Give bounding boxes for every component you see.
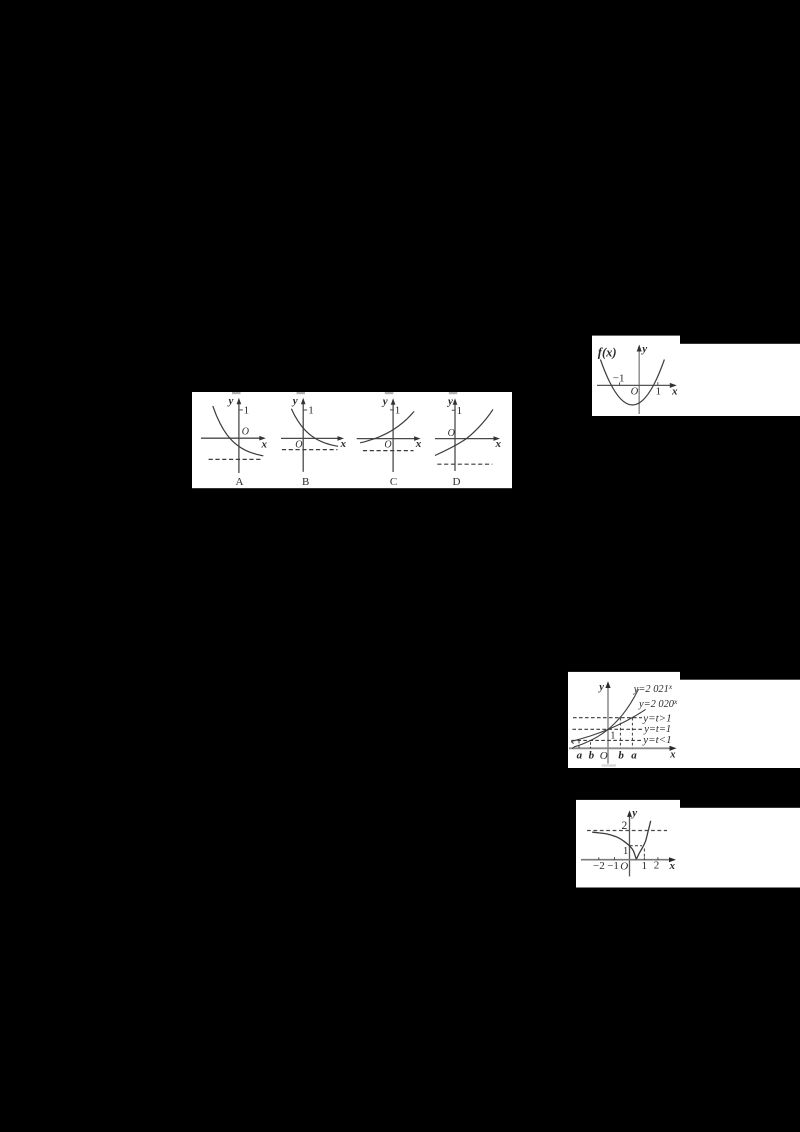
figure 4 white panel (V-shaped absolute-value curve) (576, 800, 680, 888)
fig4 tick 1 (643, 857, 645, 860)
svg-text:x: x (669, 860, 676, 872)
figure 4 white text band to page edge (679, 808, 800, 888)
panel C x-axis (357, 438, 416, 440)
svg-text:x: x (415, 438, 422, 450)
panel A y-axis (238, 403, 240, 474)
svg-text:y: y (630, 807, 637, 819)
figure 1 white text band to page edge (679, 344, 800, 416)
panel B x-axis arrowhead (338, 436, 345, 441)
panel C y-axis arrowhead (391, 398, 396, 405)
panel D y-axis arrowhead (453, 398, 458, 405)
svg-text:−1: −1 (613, 373, 625, 385)
fig3 small barb at 2021 curve left end (572, 747, 574, 749)
panel A decay curve (213, 406, 263, 456)
figure 3 white panel (exponential comparison) (568, 672, 680, 768)
figure 1 white panel (parabola figure) (592, 336, 680, 416)
svg-text:O: O (620, 860, 628, 872)
fig3 x-axis arrowhead (670, 746, 677, 751)
svg-text:1: 1 (308, 405, 314, 417)
panel D top smudge (449, 392, 458, 394)
panel D rising curve (435, 409, 493, 455)
panel B decay curve (291, 409, 338, 447)
panel A top smudge (232, 392, 241, 394)
fig4 left branch curve (592, 832, 636, 859)
fig4 y-axis arrowhead (627, 810, 632, 817)
fig1 tick 1 (657, 382, 659, 385)
svg-text:y: y (227, 395, 234, 407)
panel C rising curve (360, 411, 414, 442)
panel D y-axis (454, 403, 456, 471)
panel C top smudge (385, 392, 394, 394)
panel D dashed asymptote (437, 463, 492, 465)
svg-text:1: 1 (244, 404, 250, 416)
panel B top smudge (297, 392, 306, 394)
fig3 curve y=2021^x (574, 689, 638, 747)
fig3 dashed line y=t<1 (571, 739, 643, 741)
fig1 x-axis arrowhead (670, 383, 677, 388)
svg-text:y=2 021x: y=2 021x (633, 682, 673, 695)
fig1 y-axis arrowhead (637, 345, 642, 352)
svg-text:2: 2 (654, 860, 660, 872)
svg-text:y: y (446, 395, 453, 407)
panel B y-axis (302, 403, 304, 472)
fig3 dashed line y=t>1 (573, 717, 642, 719)
fig4 y-axis (629, 815, 631, 876)
svg-text:y: y (640, 343, 647, 355)
svg-text:x: x (261, 438, 268, 450)
fig4 x-axis (581, 859, 671, 861)
svg-text:x: x (669, 750, 675, 761)
svg-text:C: C (390, 476, 397, 488)
svg-text:y: y (597, 682, 604, 693)
panel B dashed asymptote (282, 449, 338, 451)
svg-text:−2: −2 (593, 860, 605, 872)
panel B tick 1 (303, 409, 307, 411)
panel C y-axis (392, 403, 394, 472)
svg-text:y=t<1: y=t<1 (642, 734, 671, 746)
svg-text:O: O (295, 439, 302, 450)
panel D x-axis (435, 438, 496, 440)
panel D x-axis arrowhead (494, 436, 501, 441)
fig4 dashed vertical at x=1 (643, 849, 645, 860)
svg-text:x: x (495, 438, 502, 450)
fig1 y-axis (638, 350, 640, 414)
panel C dashed asymptote (363, 450, 414, 452)
svg-text:1: 1 (623, 845, 629, 857)
svg-text:y: y (381, 395, 388, 407)
panel C tick 1 (390, 409, 394, 411)
fig4 tick -1 (614, 857, 616, 860)
svg-text:D: D (453, 476, 461, 488)
svg-text:O: O (448, 428, 455, 439)
panel B x-axis (281, 437, 340, 439)
fig3 x-axis (569, 747, 672, 749)
fig1 parabola curve (600, 360, 664, 406)
svg-text:1: 1 (610, 730, 615, 741)
svg-text:x: x (340, 438, 347, 450)
fig4 short dashed y=1 (630, 845, 642, 847)
fig1 x-axis (597, 384, 672, 386)
svg-text:1: 1 (642, 860, 648, 872)
fig3 bottom smudge (602, 764, 617, 766)
svg-text:O: O (631, 387, 639, 398)
panel A x-axis (201, 437, 261, 439)
svg-text:A: A (236, 476, 244, 488)
fig3 small barb at 2020 curve left end (571, 742, 573, 744)
fig3 dashed vertical at b (left) (590, 742, 592, 748)
svg-text:a: a (631, 750, 637, 762)
panel A y-axis arrowhead (237, 398, 242, 405)
svg-text:B: B (302, 476, 309, 488)
fig3 y-axis (607, 686, 609, 764)
fig3 curve y=2020^x (571, 709, 645, 741)
fig3 dashed vertical at b (right) (619, 718, 621, 749)
fig4 tick 2 (657, 857, 659, 860)
svg-text:b: b (589, 750, 595, 762)
fig4 right branch curve (636, 821, 650, 860)
svg-text:1: 1 (395, 405, 401, 417)
fig3 dashed line y=t=1 (572, 728, 643, 730)
panel A x-axis arrowhead (259, 436, 266, 441)
figure 2 white panel (choices A-D) (192, 392, 512, 488)
svg-text:a: a (577, 750, 583, 762)
figure 3 white text band to page edge (679, 680, 800, 768)
svg-text:1: 1 (656, 386, 662, 398)
fig4 dashed line y=2 (587, 830, 667, 832)
panel C x-axis arrowhead (414, 436, 421, 441)
svg-text:O: O (384, 439, 391, 450)
svg-text:O: O (600, 750, 608, 762)
fig4 tick -2 (598, 857, 600, 860)
svg-text:f(x): f(x) (598, 346, 617, 360)
svg-text:1: 1 (457, 405, 463, 417)
fig1 tick -1 (619, 382, 621, 385)
svg-text:y=2 020x: y=2 020x (638, 697, 678, 710)
fig3 y-axis arrowhead (605, 681, 610, 688)
panel D tick 1 (452, 409, 456, 411)
svg-text:y: y (291, 395, 298, 407)
fig4 x-axis arrowhead (669, 857, 676, 862)
svg-text:y=t>1: y=t>1 (642, 712, 671, 724)
svg-text:O: O (242, 426, 249, 437)
panel B y-axis arrowhead (301, 398, 306, 405)
fig3 dashed vertical at a (left) (578, 741, 580, 749)
svg-text:b: b (618, 750, 624, 762)
fig3 dashed vertical at a (right) (631, 718, 633, 749)
svg-text:−1: −1 (607, 860, 619, 872)
panel A tick 1 (239, 409, 243, 411)
panel A dashed asymptote (209, 458, 262, 460)
svg-text:x: x (671, 385, 678, 397)
